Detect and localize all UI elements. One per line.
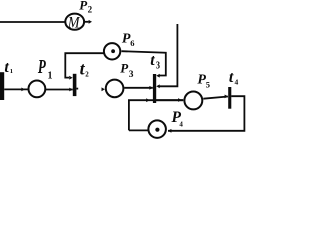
- wire: arc out of p2 (stub): [85, 21, 89, 23]
- arrowhead into p3 (floating): [102, 87, 105, 91]
- arrowhead out of p2: [89, 20, 92, 24]
- arrowhead into t4: [225, 95, 228, 99]
- svg-text:2: 2: [88, 5, 93, 15]
- arrowhead into t3 right lower (from p2 net): [156, 84, 159, 88]
- arrowhead into t2 upper (from p6): [69, 76, 72, 80]
- wire: vertical net from top down to t3 (p2->t3 arc): [159, 24, 178, 86]
- wire: t4 out right, down, and along bottom into p4: [168, 96, 244, 131]
- wire: p1 to t2: [46, 89, 73, 91]
- place p5: [184, 92, 202, 110]
- wire: p4 left stub to corner: [129, 129, 148, 131]
- transition t2: [73, 74, 77, 96]
- transition t1: [0, 72, 4, 100]
- svg-text:3: 3: [129, 70, 134, 80]
- svg-text:3: 3: [156, 59, 160, 71]
- arrowhead into p1: [21, 88, 24, 92]
- place p2 (machine M): [65, 14, 84, 30]
- wire: top line into p2: [0, 21, 66, 23]
- transition t4: [228, 87, 231, 109]
- wire: loop from p4 up and right into t3 and on to p5: [129, 100, 183, 130]
- arrowhead into t3 right upper (from p6): [156, 74, 159, 78]
- svg-text:5: 5: [206, 80, 210, 90]
- place p1: [29, 81, 46, 98]
- arrowhead on loop line before t3: [146, 98, 149, 102]
- wire: p3 to t3: [124, 87, 153, 89]
- svg-text:2: 2: [85, 70, 89, 78]
- svg-text:M: M: [67, 15, 81, 32]
- token in p6: [111, 49, 115, 53]
- arrowhead into t3 from p3: [149, 86, 152, 90]
- token in p4: [155, 128, 159, 132]
- place p4: [148, 120, 166, 138]
- svg-text:P: P: [37, 56, 46, 78]
- svg-text:4: 4: [235, 77, 239, 86]
- wire: p5 to t4: [203, 97, 228, 99]
- svg-text:1: 1: [10, 68, 13, 75]
- transition t3: [153, 74, 156, 103]
- svg-text:6: 6: [130, 38, 134, 48]
- wire: t3 to p5 (continues through bar): [156, 99, 183, 101]
- place p3: [106, 80, 124, 98]
- place p6: [104, 43, 120, 59]
- svg-text:t: t: [229, 69, 234, 86]
- wire: t1 to p1: [4, 88, 28, 90]
- svg-text:4: 4: [179, 121, 183, 129]
- arrowhead into p5: [178, 98, 181, 102]
- svg-text:t: t: [150, 52, 155, 69]
- svg-text:t: t: [4, 59, 9, 76]
- arrowhead into t2 lower (from p1): [69, 88, 72, 92]
- svg-text:1: 1: [48, 70, 53, 81]
- wire: p6 left segment, corner down to t2: [65, 53, 104, 77]
- wire: t2 output stub toward p3: [76, 88, 78, 90]
- arrowhead into p4 (from right): [168, 129, 171, 133]
- wire: p6 right segment to corner then down to t3: [122, 51, 166, 75]
